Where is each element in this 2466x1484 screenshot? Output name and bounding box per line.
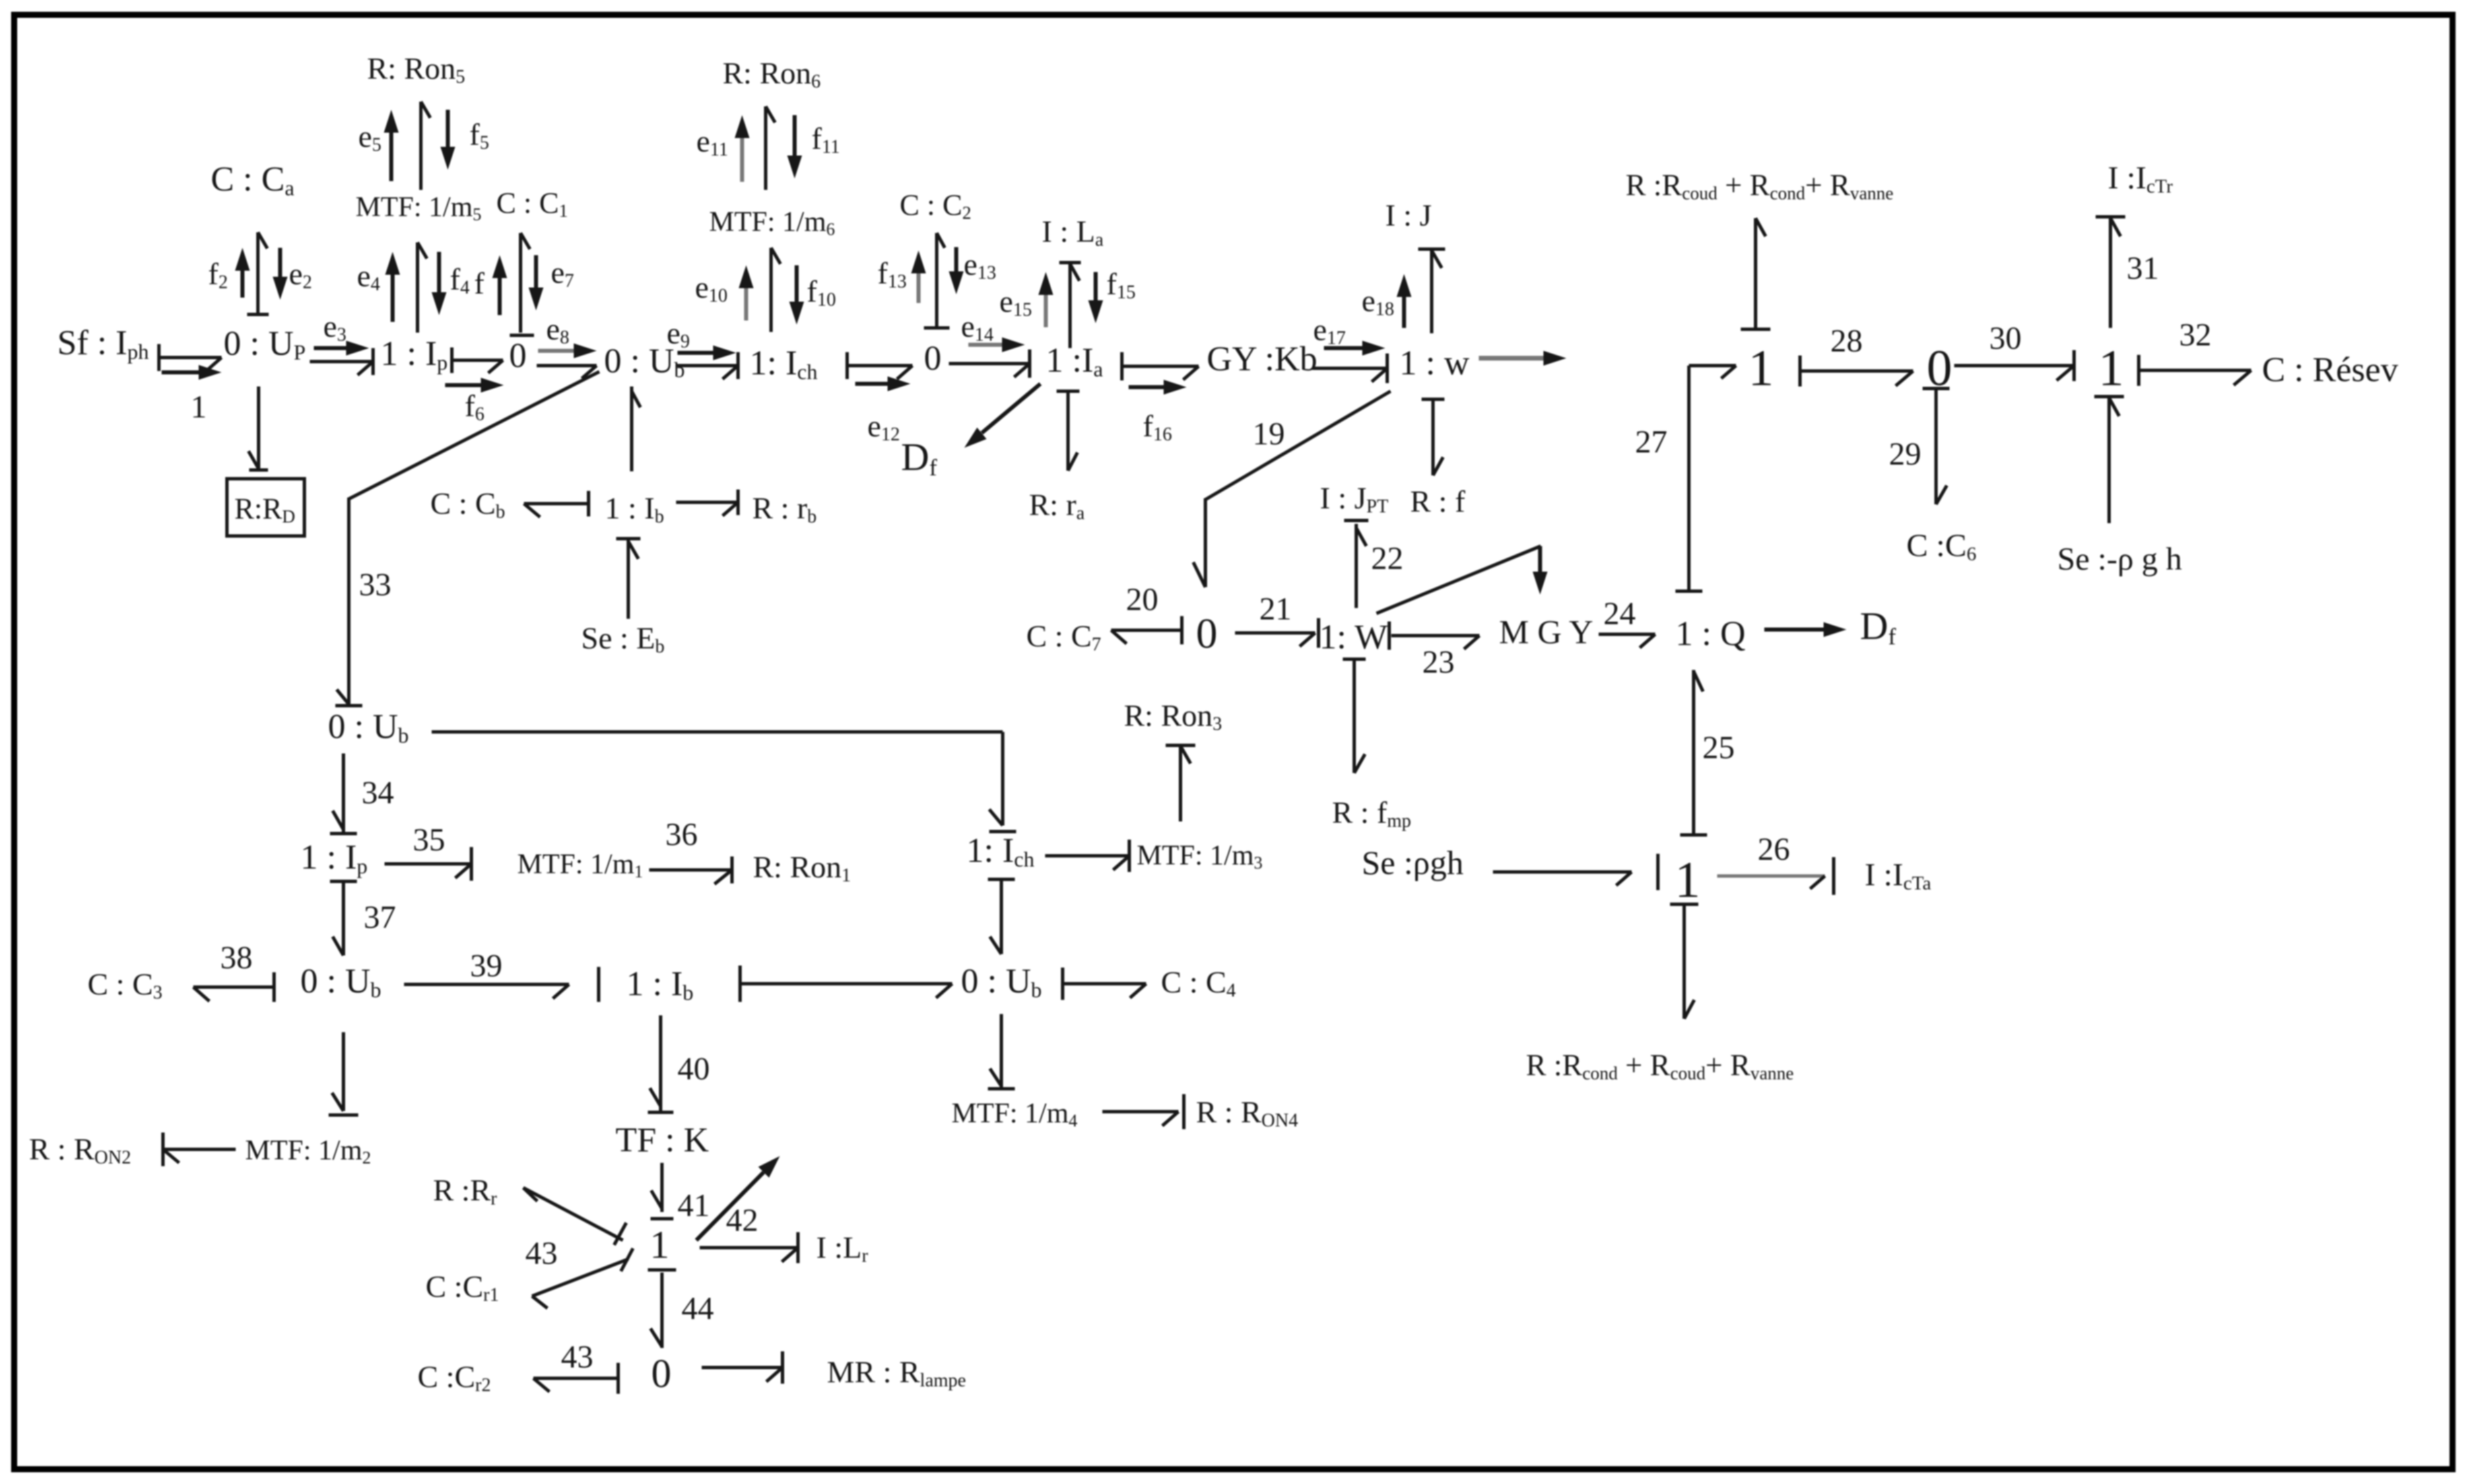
label f10 [807,274,836,310]
svg-text:1 : w: 1 : w [1399,344,1469,382]
bond 39 [404,967,599,1002]
node 1:Ib2 [626,965,694,1005]
arrow e3 [314,341,369,356]
svg-text:f: f [474,266,485,300]
bond 7 0-CC1 [510,233,534,335]
element R:RON2 [29,1132,131,1168]
element R:Rcoud top [1626,168,1894,203]
label f7 [474,266,485,300]
element I:Lr [816,1230,869,1267]
label 42 [726,1203,758,1238]
label 33 [359,567,391,603]
bond 44 [648,1270,676,1348]
node 0:Ub r4b [961,962,1042,1002]
element Se:Eb [581,621,665,657]
element C:C6 [1906,528,1976,565]
node 0:Ub r1 [604,342,685,382]
bond 0Ub-MTF4 [988,1014,1015,1089]
label e2 [289,257,312,293]
arrow w-out [1479,351,1566,366]
svg-text:30: 30 [1989,321,2022,356]
svg-text:19: 19 [1253,416,1285,452]
node 0 b [924,339,941,378]
bond 35 [385,847,471,881]
arrow Df1 [964,384,1040,448]
label f4 [450,262,469,298]
svg-text:43: 43 [525,1236,558,1271]
bond 1e-Rbot [1670,904,1698,1019]
svg-text:R: Ron3: R: Ron3 [1124,698,1222,735]
element C:Cr1 [426,1269,499,1306]
node 1:Ich [749,344,818,384]
svg-text:0 : UP: 0 : UP [224,325,306,364]
node 0 a [509,337,527,375]
element C:Ca [211,160,294,200]
svg-text:GY :Kb: GY :Kb [1207,340,1317,378]
node 1:Ip [380,335,448,374]
element R:f [1410,484,1465,518]
element MTF:1/m4 [952,1098,1077,1131]
arrow f2 [235,248,250,298]
svg-text:0 : Ub: 0 : Ub [328,708,409,747]
label 21 [1259,591,1292,627]
element R:ra [1029,487,1085,524]
bond MTF2-RON2 [163,1133,236,1166]
arrow e2 [273,248,288,300]
bond 37 [330,881,357,955]
bond 40 [648,1015,673,1112]
bond Ib-rb [676,490,738,516]
bond 20 [1111,616,1182,644]
label e11 [696,124,728,160]
arrow e13 [949,247,964,294]
arrow e4 [385,252,400,322]
element MTF:1/m3 [1137,840,1263,873]
node 0 c [1927,340,1952,397]
svg-text:21: 21 [1259,591,1292,627]
arrow e12 [855,376,910,391]
bond 8 0-0Ub [537,366,597,378]
element MTF:1/m5 [356,192,481,224]
bond 18 1w-IJ [1418,249,1445,333]
bond 16 Ia-GY [1122,352,1199,380]
svg-text:31: 31 [2127,250,2159,286]
label Df1 [901,435,937,481]
svg-text:C : Résev: C : Résev [2262,351,2398,389]
arrow e15 [1038,272,1053,327]
element I:Jpt [1320,481,1389,517]
node 1:w [1399,344,1469,382]
label Df2 [1860,604,1896,650]
label 26 [1758,832,1790,867]
label 25 [1702,730,1735,766]
element R:rb [752,491,817,527]
arrow e11 [735,115,749,182]
svg-text:C : C1: C : C1 [496,187,568,221]
svg-text:0: 0 [924,339,941,378]
element R:fmp [1332,795,1411,832]
label 23 [1422,644,1455,680]
element C:Cb [430,486,505,522]
bond 34 [330,753,357,834]
svg-text:R : f: R : f [1410,484,1465,518]
label e12 [867,409,900,445]
svg-text:0: 0 [509,337,527,375]
arrow lamp-diag [696,1156,780,1240]
node 0:Up [224,325,306,364]
svg-text:MTF: 1/m4: MTF: 1/m4 [952,1098,1077,1131]
svg-text:C :C6: C :C6 [1906,528,1976,565]
label f16 [1143,409,1172,445]
label e14 [961,309,993,345]
label f5 [469,117,489,154]
arrow e17 [1324,341,1385,356]
label 29 [1889,436,1921,472]
svg-text:I : J: I : J [1385,198,1432,232]
label 30 [1989,321,2022,356]
svg-text:MTF: 1/m2: MTF: 1/m2 [245,1135,371,1168]
svg-text:C : C7: C : C7 [1026,619,1101,655]
bond 26 [1717,857,1834,895]
label 36 [665,817,698,852]
bond 12 Ich-0b [847,352,912,379]
label 38 [220,940,253,976]
svg-text:43: 43 [561,1339,593,1375]
arrow e10 [739,265,754,321]
label e15 [999,284,1032,321]
svg-text:25: 25 [1702,730,1735,766]
bond 4 1Ip-MTF5 [418,242,427,333]
label e7 [551,255,574,292]
svg-text:41: 41 [677,1188,710,1223]
svg-text:M G Y: M G Y [1499,613,1593,650]
element R:Ron3 [1124,698,1222,735]
arrow e5 [384,110,399,181]
bond 0-MR [702,1351,782,1384]
svg-text:R: Ron5: R: Ron5 [367,51,465,88]
svg-text:20: 20 [1126,582,1158,617]
label 44 [681,1291,714,1326]
bond Se-1e [1493,854,1658,890]
element MR:Rlampe [827,1355,966,1391]
svg-text:24: 24 [1603,596,1636,632]
node 1 d [2098,340,2124,397]
svg-text:0 : Ub: 0 : Ub [961,962,1042,1002]
label 43a [525,1236,558,1271]
bond 14 0-1Ia [949,349,1030,378]
svg-text:28: 28 [1830,323,1863,359]
element Sf:Iph [57,324,149,364]
svg-text:I :Lr: I :Lr [816,1230,869,1267]
bond 21 [1235,618,1319,648]
svg-text:26: 26 [1758,832,1790,867]
arrow f10 [789,265,804,325]
arrow f7 [492,255,507,315]
svg-text:R :Rr: R :Rr [433,1173,498,1209]
bond 17 GY-1w [1312,353,1387,383]
bond 3 0Up-1Ip [310,348,373,375]
bond 27 [1675,366,1736,591]
svg-text:40: 40 [677,1051,710,1087]
element C:C4 [1161,965,1236,1001]
node 1:Ip2 [300,838,368,878]
svg-text:R: Ron6: R: Ron6 [723,56,821,92]
node 1:Ia [1046,341,1103,381]
svg-text:0: 0 [651,1351,671,1396]
bond 22 1W-Jpt [1344,520,1368,608]
svg-text:44: 44 [681,1291,714,1326]
bond 15 Ia-La [1059,263,1081,348]
arrow e14 [968,337,1025,352]
label 31 [2127,250,2159,286]
svg-text:MTF: 1/m5: MTF: 1/m5 [356,192,481,224]
element I:La [1042,214,1104,250]
bond 16a Ia-ra [1057,391,1079,471]
svg-text:C : C2: C : C2 [900,189,971,223]
svg-text:22: 22 [1371,541,1403,576]
svg-text:R: Ron1: R: Ron1 [753,850,851,886]
label e8 [546,312,569,348]
wire Ub-Ich2 [432,732,1016,832]
svg-text:Se :-ρ g h: Se :-ρ g h [2057,541,2182,577]
element R:Ron1 [753,850,851,886]
label e10 [695,270,727,306]
bond Ich2-MTF3 [1045,840,1129,872]
label 35 [413,822,445,858]
node 1:Ib [605,491,664,527]
bond Ich2-0Ub [988,879,1015,954]
bond 0Ub-CC4 [1063,968,1146,1000]
svg-text:TF : K: TF : K [615,1121,709,1159]
bond Cb-Ib [524,491,589,517]
element R:Rcond bot [1526,1048,1794,1083]
bond topR 1 [1741,218,1770,329]
bond Rfmp 1W [1343,659,1366,773]
bond MGY diag [1376,546,1547,613]
arrow f16 [1129,380,1187,395]
svg-text:1: 1 [2098,340,2124,397]
label e18 [1362,283,1394,320]
svg-text:36: 36 [665,817,698,852]
svg-text:37: 37 [364,900,396,935]
arrow Df2 [1764,622,1846,637]
svg-text:1 : Q: 1 : Q [1675,615,1745,653]
arrow f6 [445,378,504,393]
bond Eb-Ib [616,539,640,619]
bond 42 [700,1232,798,1263]
bond 29 [1923,389,1950,504]
bond 13 0-CC2 [924,233,949,328]
bond 5 MTF5-Ron5 [421,102,430,190]
label f6 [465,389,484,425]
bond 38 [193,972,274,1002]
node 0:Ub r3 [328,708,409,747]
svg-text:Se : Eb: Se : Eb [581,621,665,657]
label e9 [667,316,690,352]
bond 32 [2139,355,2251,386]
bond 11 MTF6-Ron6 [766,106,775,190]
arrow f11 [787,115,802,178]
bond MTF4-RON4 [1102,1094,1184,1129]
label 39 [470,948,502,984]
node 1:Ich2 [966,832,1034,871]
label f2 [208,257,228,293]
element TF:K [615,1121,709,1159]
label f11 [811,121,840,158]
arrow f5 [440,110,455,170]
svg-text:1: 1 [1748,340,1774,397]
svg-text:33: 33 [359,567,391,603]
svg-text:23: 23 [1422,644,1455,680]
svg-text:1: 1 [650,1223,669,1267]
label e3 [323,309,346,345]
label e5 [358,119,381,156]
bond 43b [533,1363,618,1394]
arrow f4 [432,252,446,315]
element C:Cr2 [418,1359,491,1396]
label 28 [1830,323,1863,359]
label 43b [561,1339,593,1375]
node 1:W [1319,618,1388,656]
node 0 lamp [651,1351,671,1396]
svg-text:38: 38 [220,940,253,976]
bond 31 [2096,217,2125,328]
bond 6 1Ip-0 [452,347,503,373]
svg-text:35: 35 [413,822,445,858]
bond 25 [1680,670,1707,835]
label 22 [1371,541,1403,576]
arrow f15 [1088,272,1103,323]
bond 28 [1800,356,1913,386]
label e13 [964,247,996,283]
element MTF:1/m1 [517,849,643,881]
element C:C7 [1026,619,1101,655]
label f13 [877,256,906,292]
svg-text:32: 32 [2179,317,2211,353]
element R:Ron5 [367,51,465,88]
node 1 e [1675,852,1700,908]
label 20 [1126,582,1158,617]
element MTF:1/m6 [709,207,835,239]
element R:Ron6 [723,56,821,92]
label 32 [2179,317,2211,353]
bond 24 [1599,634,1655,648]
bond 23 [1389,621,1479,650]
label e17 [1313,312,1345,349]
svg-text:29: 29 [1889,436,1921,472]
element C:C2 [900,189,971,223]
element MTF:1/m2 [245,1135,371,1168]
element Se:pgh [1362,844,1463,881]
element R:Rr [433,1173,498,1209]
element R:RON4 [1196,1095,1298,1131]
svg-text:C : C4: C : C4 [1161,965,1236,1001]
svg-text:27: 27 [1635,424,1667,460]
element GY:Kb [1207,340,1317,378]
bond Rr-1 [523,1188,626,1245]
svg-text:C : Ca: C : Ca [211,160,294,200]
label 1 [191,389,207,425]
svg-text:C : Cb: C : Cb [430,486,505,522]
element I:IcTr [2108,160,2173,197]
element I:J [1385,198,1432,232]
node 1 lamp [650,1223,669,1267]
svg-text:MTF: 1/m6: MTF: 1/m6 [709,207,835,239]
svg-text:42: 42 [726,1203,758,1238]
bond Se-rho 1d [2094,397,2124,523]
node 0 d [1196,609,1218,657]
bond 2 0Up-CCa [247,232,269,314]
svg-text:34: 34 [362,775,394,811]
arrow e18 [1397,274,1411,328]
element R:RD box [227,479,304,536]
bond 41 [651,1163,673,1219]
label 40 [677,1051,710,1087]
svg-text:1: 1 [191,389,207,425]
bond 0Ub-Ib [632,386,640,471]
svg-text:Se :ρgh: Se :ρgh [1362,844,1463,881]
bond 33 [335,372,599,706]
node 1 c [1748,340,1774,397]
bond Rf 1w [1422,399,1444,475]
bond 9 0Ub-1Ich [676,352,738,379]
node 0:Ub r4 [300,962,381,1002]
svg-text:1: W: 1: W [1319,618,1388,656]
element Se:-pgh [2057,541,2182,577]
svg-text:0: 0 [1196,609,1218,657]
element I:IcTa [1865,857,1931,894]
arrow e9 [677,345,736,360]
svg-text:I : La: I : La [1042,214,1104,250]
label 34 [362,775,394,811]
arrow f13 [911,250,926,303]
svg-text:C : C3: C : C3 [88,967,162,1003]
element C:Resev [2262,351,2398,389]
bond 0Up-RD [248,386,268,470]
arrow e7 [529,255,543,310]
element MGY [1499,613,1593,650]
element C:C3 [88,967,162,1003]
bond 1 Sf-0Up [159,344,222,372]
arrow 1 [162,365,222,380]
bond 10 Ich-MTF6 [771,248,780,332]
bond 0Ub-MTF2 [329,1032,358,1115]
bond Ib2-0Ub [740,966,952,1002]
label 19 [1253,416,1285,452]
svg-text:39: 39 [470,948,502,984]
svg-text:MTF: 1/m1: MTF: 1/m1 [517,849,643,881]
element C:C1 [496,187,568,221]
label 41 [677,1188,710,1223]
label 37 [364,900,396,935]
node 1:Q [1675,615,1745,653]
arrow e8 [538,343,597,358]
label 24 [1603,596,1636,632]
bond 43a [532,1248,633,1308]
bond 36 [649,856,732,884]
label 27 [1635,424,1667,460]
label f15 [1106,267,1135,303]
bond 19 [1193,391,1391,587]
bond MTF3-Ron3 [1166,745,1195,821]
svg-text:0 : Ub: 0 : Ub [300,962,381,1002]
svg-text:MTF: 1/m3: MTF: 1/m3 [1137,840,1263,873]
svg-text:1: 1 [1675,852,1700,908]
svg-text:R : rb: R : rb [752,491,817,527]
bond 30 [1954,350,2074,381]
label e4 [357,259,380,295]
